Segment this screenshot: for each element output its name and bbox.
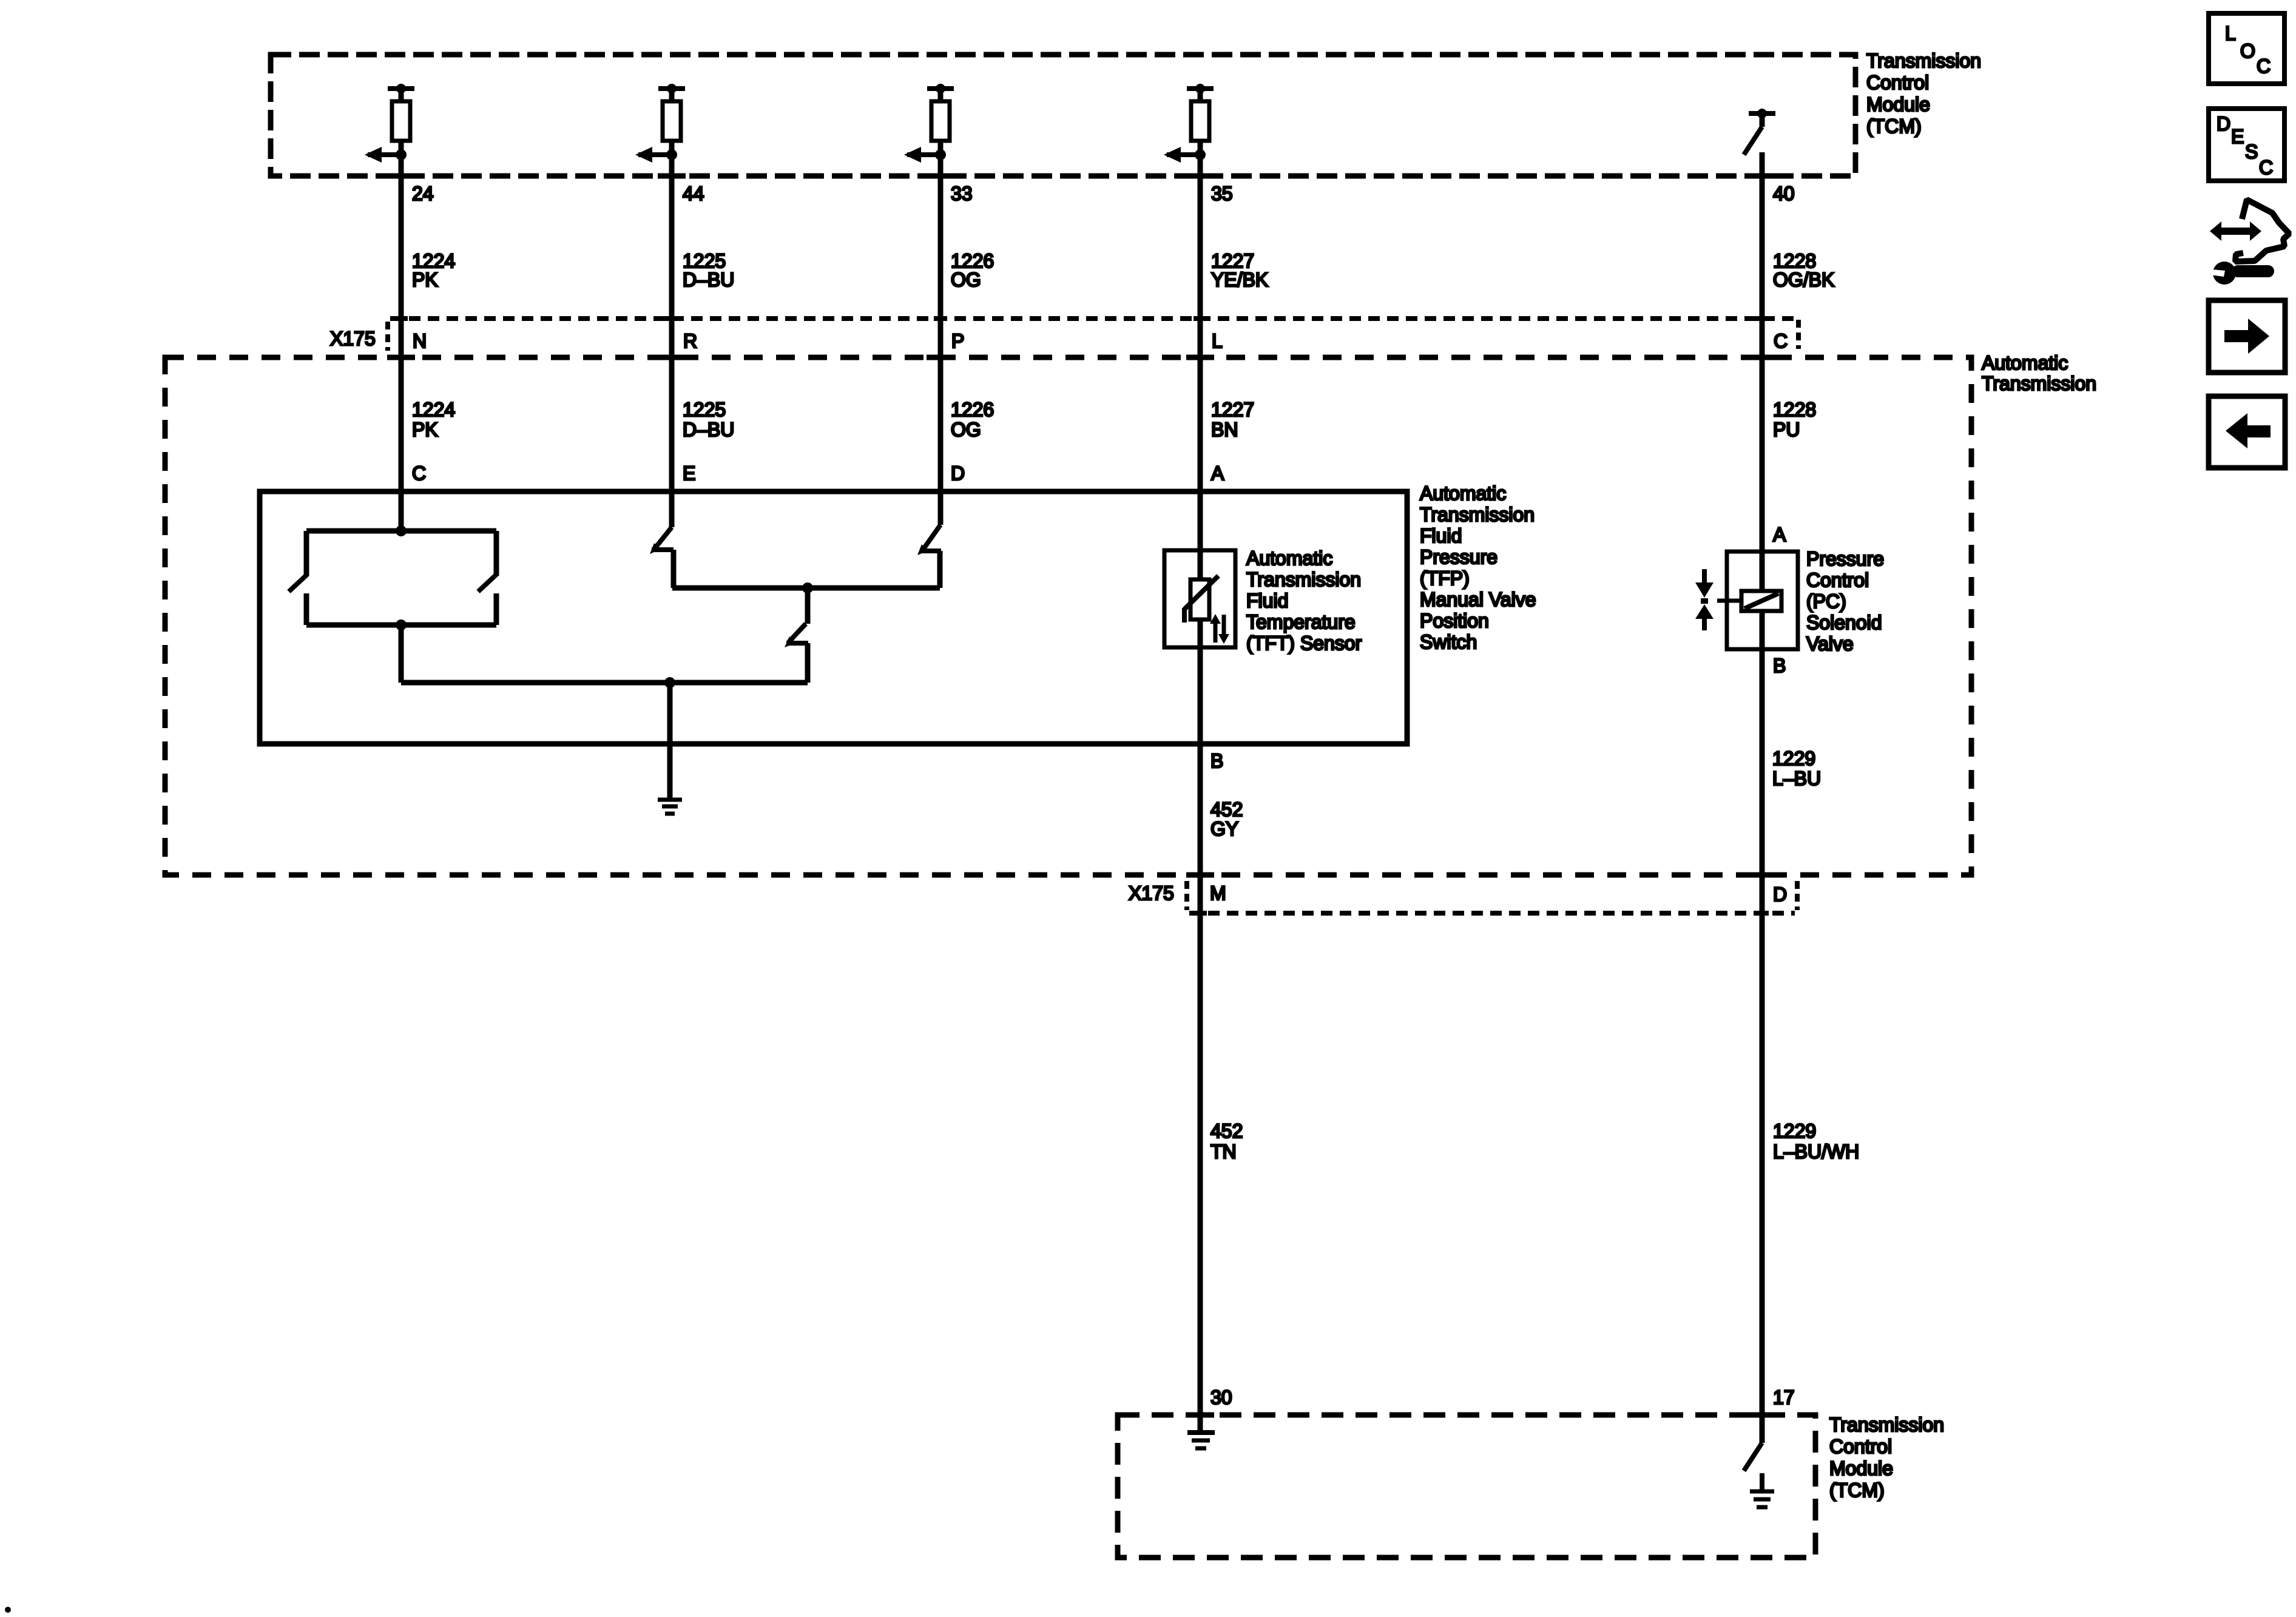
svg-text:PK: PK xyxy=(412,419,438,441)
svg-text:D–BU: D–BU xyxy=(683,419,734,441)
svg-text:Transmission: Transmission xyxy=(1829,1414,1944,1436)
svg-text:L: L xyxy=(1212,330,1223,352)
svg-text:C: C xyxy=(1774,330,1788,352)
svg-text:44: 44 xyxy=(683,183,704,204)
svg-text:1226: 1226 xyxy=(951,399,994,420)
svg-text:(TFP): (TFP) xyxy=(1420,567,1470,589)
svg-text:Automatic: Automatic xyxy=(1982,352,2068,374)
svg-text:35: 35 xyxy=(1211,183,1233,204)
svg-text:1229: 1229 xyxy=(1772,748,1815,769)
svg-text:E: E xyxy=(683,462,695,484)
svg-text:S: S xyxy=(2245,141,2258,163)
svg-text:N: N xyxy=(413,330,427,352)
svg-text:(TCM): (TCM) xyxy=(1866,115,1922,137)
svg-text:L: L xyxy=(2225,22,2236,44)
svg-text:Module: Module xyxy=(1866,93,1930,115)
svg-text:Automatic: Automatic xyxy=(1420,482,1506,504)
svg-text:24: 24 xyxy=(412,183,434,204)
svg-text:A: A xyxy=(1773,524,1786,545)
svg-text:Module: Module xyxy=(1829,1457,1893,1479)
svg-text:D: D xyxy=(951,462,965,484)
svg-text:X175: X175 xyxy=(330,328,376,349)
svg-text:L–BU/WH: L–BU/WH xyxy=(1773,1141,1859,1163)
svg-text:Position: Position xyxy=(1420,610,1489,632)
svg-text:TN: TN xyxy=(1210,1141,1237,1163)
svg-text:M: M xyxy=(1210,882,1226,904)
svg-text:Temperature: Temperature xyxy=(1246,611,1356,633)
svg-text:Solenoid: Solenoid xyxy=(1806,612,1882,633)
svg-text:(TCM): (TCM) xyxy=(1829,1479,1885,1501)
svg-text:E: E xyxy=(2231,126,2244,147)
svg-text:C: C xyxy=(2257,55,2271,77)
svg-text:YE/BK: YE/BK xyxy=(1211,269,1268,291)
svg-text:Fluid: Fluid xyxy=(1246,590,1288,612)
svg-text:OG/BK: OG/BK xyxy=(1773,269,1834,291)
svg-text:Automatic: Automatic xyxy=(1246,547,1332,569)
svg-text:OG: OG xyxy=(951,269,981,291)
svg-text:R: R xyxy=(683,330,697,352)
svg-text:B: B xyxy=(1210,750,1223,772)
svg-text:Fluid: Fluid xyxy=(1420,525,1462,547)
svg-text:C: C xyxy=(412,462,426,484)
svg-text:OG: OG xyxy=(951,419,981,441)
svg-text:452: 452 xyxy=(1210,798,1243,820)
svg-text:(PC): (PC) xyxy=(1806,590,1846,612)
svg-text:40: 40 xyxy=(1773,183,1795,204)
svg-text:BN: BN xyxy=(1211,419,1238,441)
svg-text:D: D xyxy=(1773,883,1787,905)
svg-text:L–BU: L–BU xyxy=(1772,768,1821,789)
svg-text:Transmission: Transmission xyxy=(1982,373,2096,394)
svg-text:Pressure: Pressure xyxy=(1420,546,1497,568)
svg-text:1228: 1228 xyxy=(1773,399,1816,420)
svg-text:GY: GY xyxy=(1210,818,1238,840)
svg-text:Transmission: Transmission xyxy=(1246,569,1361,590)
svg-text:30: 30 xyxy=(1210,1386,1232,1408)
svg-text:1224: 1224 xyxy=(412,399,455,420)
svg-text:Pressure: Pressure xyxy=(1806,548,1884,570)
svg-text:1229: 1229 xyxy=(1773,1120,1816,1142)
svg-text:1225: 1225 xyxy=(683,399,726,420)
svg-text:D–BU: D–BU xyxy=(683,269,734,291)
svg-text:Valve: Valve xyxy=(1806,633,1854,655)
svg-text:Switch: Switch xyxy=(1420,631,1477,653)
svg-text:Control: Control xyxy=(1806,569,1869,591)
svg-text:Transmission: Transmission xyxy=(1420,504,1535,525)
svg-text:Control: Control xyxy=(1866,72,1929,93)
svg-text:Manual Valve: Manual Valve xyxy=(1420,589,1536,610)
svg-text:PK: PK xyxy=(412,269,438,291)
svg-text:17: 17 xyxy=(1773,1386,1795,1408)
svg-text:Transmission: Transmission xyxy=(1866,50,1981,72)
svg-text:P: P xyxy=(951,330,964,352)
svg-text:D: D xyxy=(2217,113,2230,135)
svg-text:O: O xyxy=(2240,40,2255,62)
svg-text:1227: 1227 xyxy=(1211,399,1254,420)
svg-text:X175: X175 xyxy=(1129,882,1174,904)
svg-text:B: B xyxy=(1773,655,1786,677)
svg-text:(TFT) Sensor: (TFT) Sensor xyxy=(1246,632,1362,654)
svg-text:33: 33 xyxy=(951,183,973,204)
svg-text:PU: PU xyxy=(1773,419,1800,441)
svg-text:Control: Control xyxy=(1829,1436,1892,1457)
svg-text:452: 452 xyxy=(1210,1120,1243,1142)
svg-text:C: C xyxy=(2259,157,2273,178)
svg-text:A: A xyxy=(1211,462,1224,484)
